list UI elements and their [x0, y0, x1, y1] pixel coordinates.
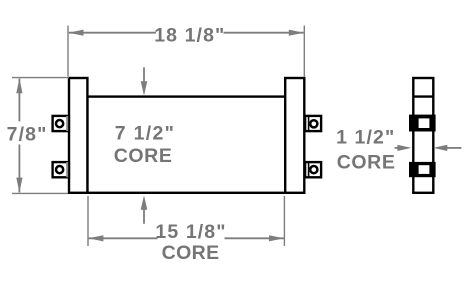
svg-text:CORE: CORE	[162, 242, 220, 264]
svg-text:8 7/8": 8 7/8"	[0, 123, 47, 145]
overall height dimension 8 7/8	[12, 78, 69, 194]
left tank	[69, 78, 87, 193]
arrowhead left of 15 1/8 dim	[88, 235, 103, 241]
svg-text:18 1/8": 18 1/8"	[154, 25, 225, 47]
svg-text:1 1/2": 1 1/2"	[336, 126, 395, 148]
side view upper bracket	[409, 115, 436, 132]
extension line bottom	[12, 192, 68, 194]
dimension line left segment	[69, 32, 156, 34]
right tank	[285, 78, 304, 193]
extension line right	[283, 196, 285, 246]
dimension line lower segment	[18, 145, 20, 193]
upper-right mounting bracket	[305, 116, 321, 131]
side view tank divider	[413, 95, 433, 97]
left arrow	[395, 145, 412, 151]
extension line right	[303, 26, 305, 77]
dimension line upper segment	[18, 79, 20, 122]
lower-left mounting bracket	[53, 162, 69, 177]
side view lower bracket	[409, 162, 436, 177]
arrowhead top of 8 7/8 dim	[16, 78, 22, 93]
down arrow to core top	[141, 67, 148, 95]
extension line top	[12, 77, 69, 79]
arrowhead right of 15 1/8 dim	[269, 235, 284, 241]
upper-left mounting bracket	[53, 116, 69, 131]
dimension line right segment	[225, 237, 284, 239]
svg-text:CORE: CORE	[114, 145, 173, 167]
svg-text:CORE: CORE	[337, 151, 396, 173]
lower-right mounting bracket	[305, 162, 321, 177]
arrowhead bottom of 8 7/8 dim	[16, 178, 22, 193]
arrowhead left of 18 1/8 dim	[68, 30, 83, 36]
extension line left	[67, 26, 69, 77]
right arrow	[433, 145, 461, 151]
core width dimension 15 1/8	[88, 196, 284, 246]
extension line left	[87, 196, 89, 246]
dimension line left segment	[89, 237, 158, 239]
side view column	[413, 78, 433, 193]
dimension line right segment	[224, 32, 304, 34]
core (front view)	[87, 97, 285, 193]
overall width dimension 18 1/8	[68, 26, 304, 77]
svg-text:7 1/2": 7 1/2"	[115, 123, 175, 145]
arrowhead right of 18 1/8 dim	[289, 30, 304, 36]
svg-text:15 1/8": 15 1/8"	[155, 221, 226, 243]
up arrow to core bottom	[141, 195, 148, 223]
